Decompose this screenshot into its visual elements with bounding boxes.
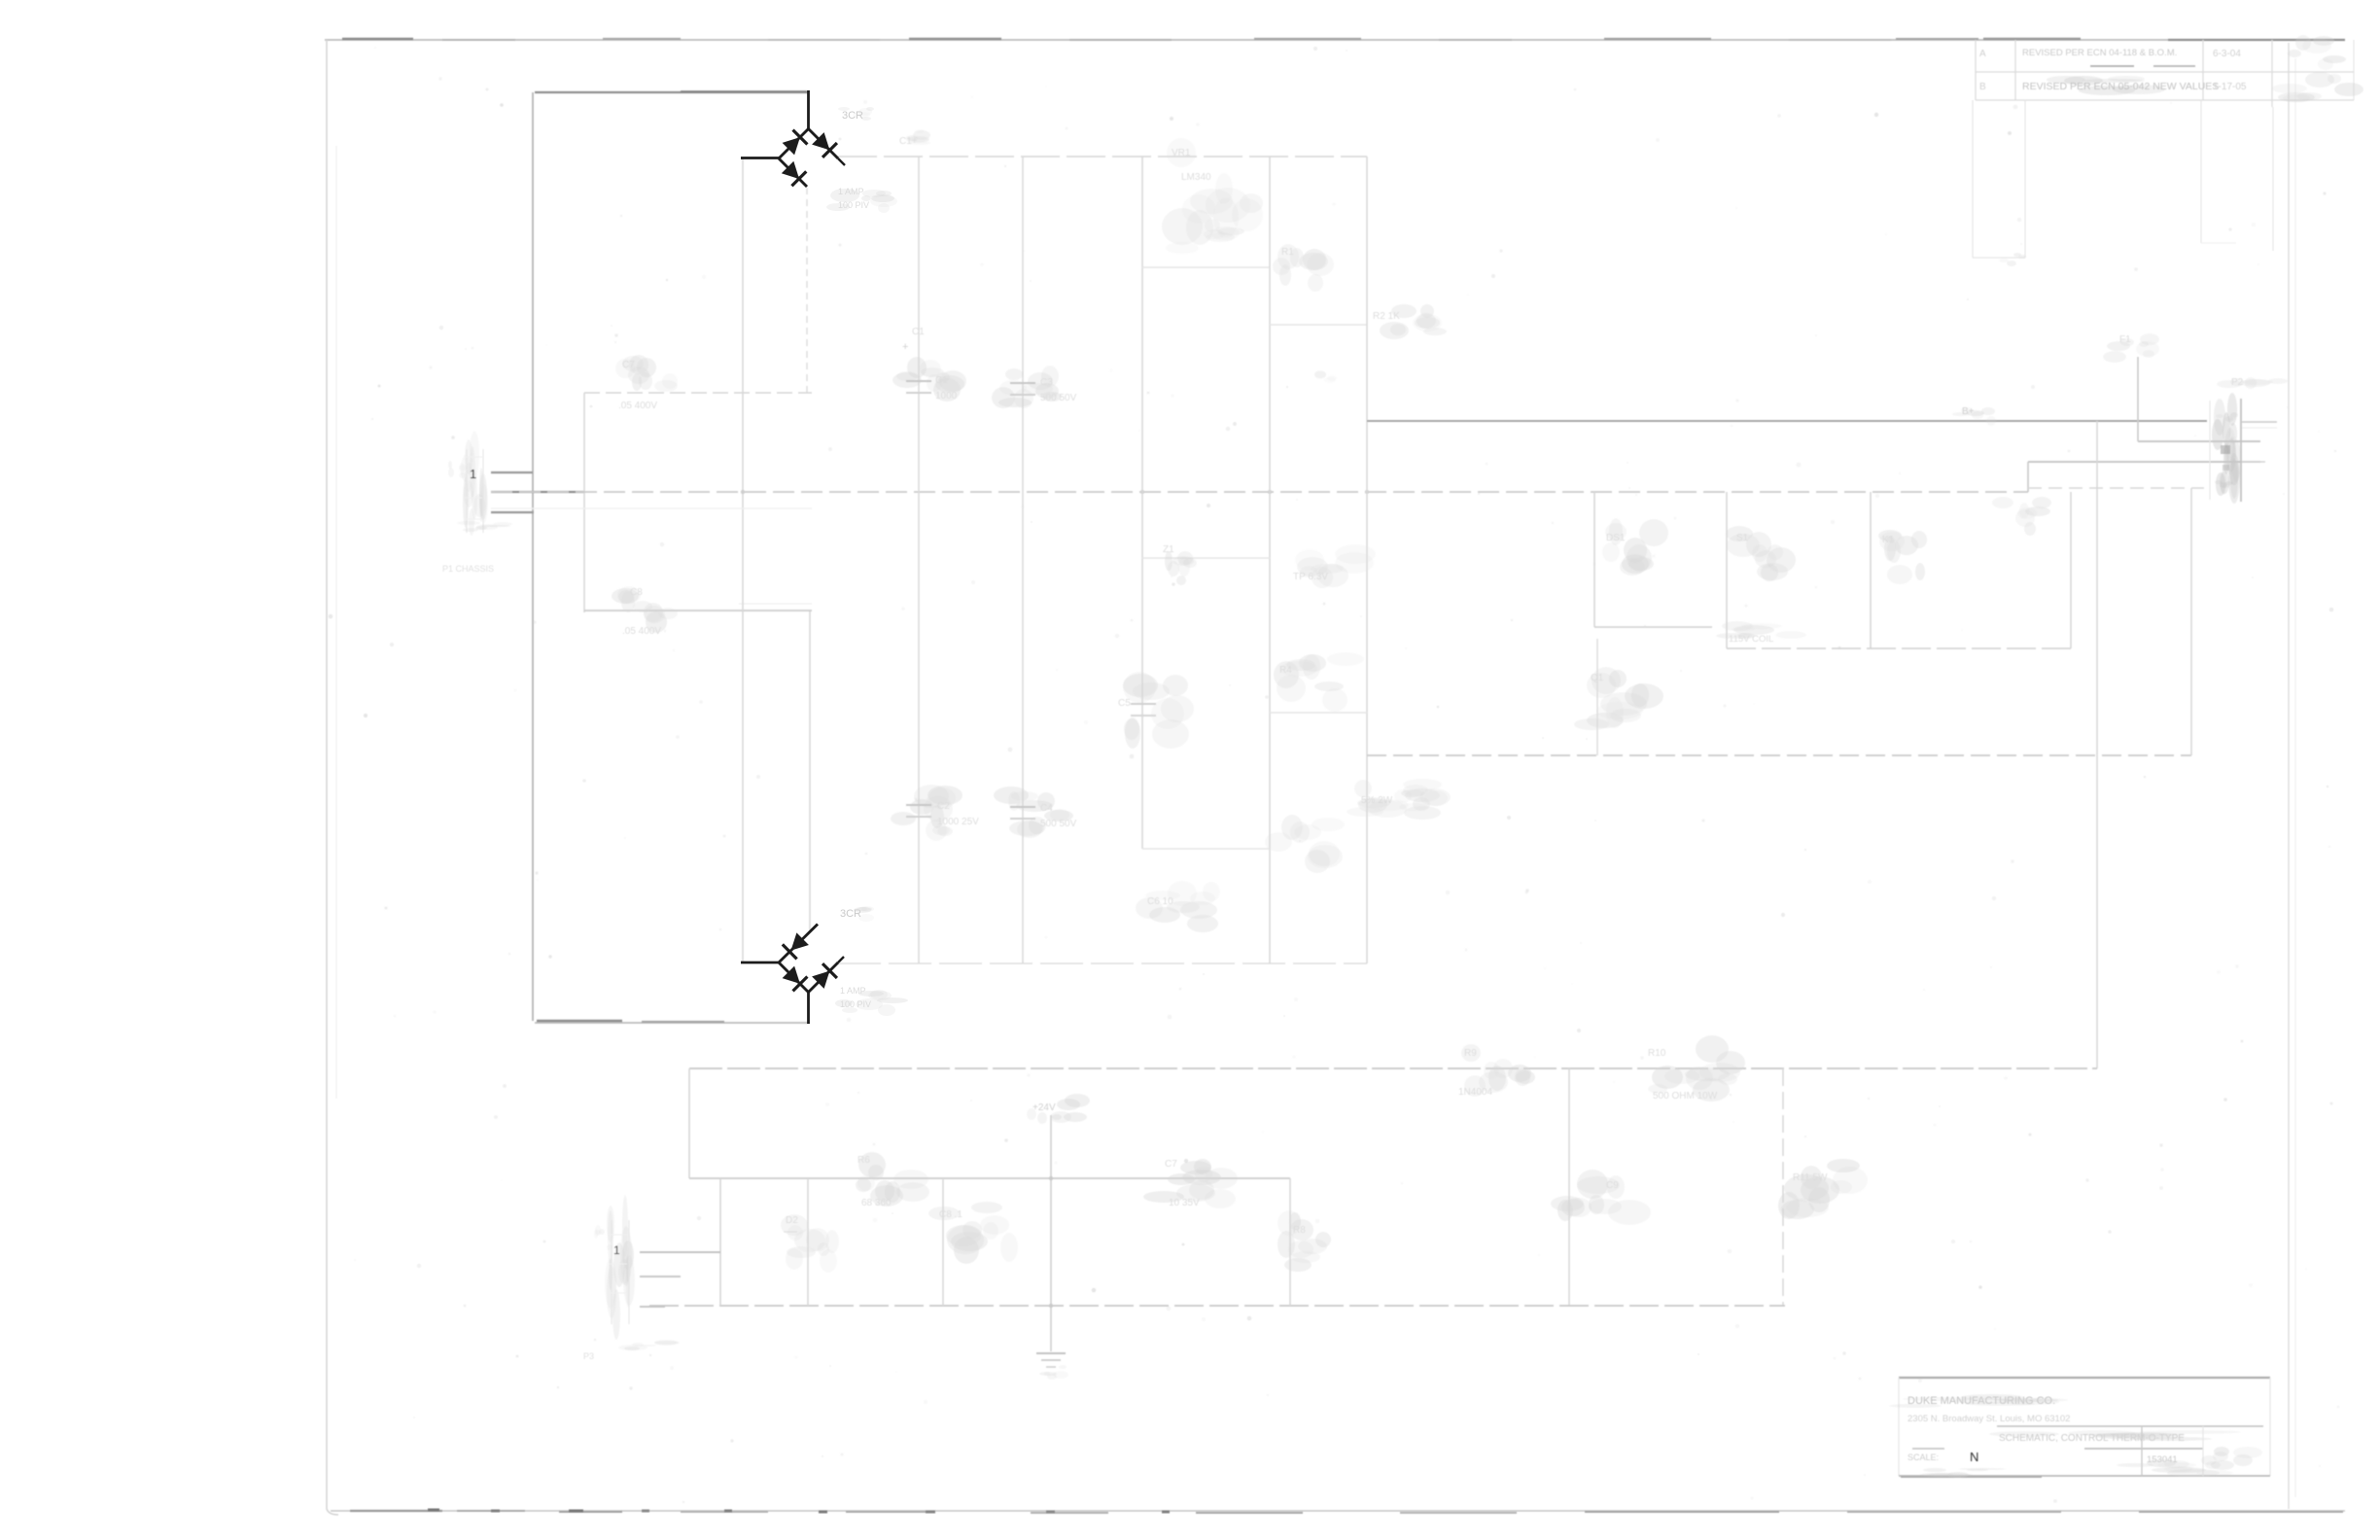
svg-text:R2 1K: R2 1K [1373,311,1400,322]
bridge rectifier CR1 left lead [741,157,779,159]
revision table box [1976,40,2354,107]
svg-text:D2: D2 [786,1215,798,1226]
connector J2 label [2217,377,2288,389]
svg-text:68 360: 68 360 [861,1198,892,1208]
svg-text:500 50V: 500 50V [1040,819,1077,829]
capacitor C6 body [994,787,1077,838]
component on x1306 low [1265,815,1345,873]
wire y475 [2028,461,2260,463]
regulator U1 body [1162,138,1263,254]
capacitor C3 body [892,357,966,402]
svg-text:.05 400V: .05 400V [618,401,657,411]
connector J2 pin marks [2215,412,2238,488]
bridge rectifier CR2 bottom lead [807,992,810,1024]
component on x1327 [1277,1210,1331,1272]
svg-text:C9: C9 [1606,1180,1619,1191]
inductor L1 on y1212 [1143,1159,1238,1208]
junction at (1306,506) [1268,490,1272,494]
junction at (764,506) [741,490,745,494]
svg-text:115V COIL: 115V COIL [1729,634,1773,645]
connector J2 right stubs [2242,422,2277,462]
revision table hanging rule 2 [2201,100,2273,251]
svg-text:C7: C7 [1165,1159,1177,1170]
capacitor C1 on y404 [615,355,678,411]
svg-text:2305 N. Broadway St. Louis, M: 2305 N. Broadway St. Louis, MO 63102 [1907,1414,2070,1424]
bridge rectifier CR2 diode D2 (lower-left) [779,962,809,993]
junction at (1081,1343) [1049,1304,1053,1308]
net VUNREG middle bus [491,492,2028,508]
resistor R10 on y1099 [1648,1035,1745,1102]
svg-text:R8: R8 [1293,1225,1306,1236]
component below y873 [1136,881,1220,932]
revision table row 2 text [1979,72,2363,102]
connector J3 body [594,1195,635,1340]
ground symbol at x1081 [1036,1353,1068,1380]
svg-text:R10: R10 [1648,1048,1666,1059]
svg-text:C1+: C1+ [899,136,918,147]
component near x2086 under bus [1992,497,2051,536]
net bus y1099 [689,1067,2097,1069]
title block vertical divider [2142,1426,2203,1476]
svg-text:1: 1 [470,467,476,481]
svg-text:C8 .1: C8 .1 [939,1209,962,1220]
connector J1 pin2 wire [491,491,584,493]
junction at (1406,506) [1365,490,1369,494]
svg-text:TP 6.3V: TP 6.3V [1293,572,1328,582]
resistor R2 label [1373,304,1447,339]
transistor Q1 body [1574,667,1663,730]
label under bus y777 [1354,779,1451,818]
wire regulator column x1175 [1141,157,1143,849]
svg-text:10 35V: 10 35V [1169,1198,1200,1208]
title block title text [1989,1430,2241,1444]
wire vertical x2254 [2190,488,2192,755]
wire vertical x2086 [2027,462,2029,492]
wire filter column x945 [918,157,920,963]
svg-text:C3: C3 [1040,377,1053,388]
wire vertical x709 [688,1068,690,1178]
svg-text:1N4004: 1N4004 [1458,1087,1492,1098]
wire tick y275 [1142,266,1270,268]
wire y667 [1727,647,2071,649]
wire vertical x741 [719,1178,721,1306]
title block outer box [1899,1378,2270,1477]
power rail VCC vertical x1081 [1050,1115,1052,1351]
net bus y1212 [689,1177,1290,1179]
diode D6 on x831 [781,1214,839,1273]
capacitor C3 value label [902,327,925,353]
bridge rectifier CR1 diode D1 (upper-left) [779,129,809,159]
wire left vertical bus [532,92,534,1021]
wire bottom return horizontal [535,1021,809,1023]
svg-text:1-17-05: 1-17-05 [2213,82,2247,92]
svg-text:.05 400V: .05 400V [622,626,661,637]
svg-text:A: A [1979,49,1986,59]
capacitor C2 on y628 [612,586,678,637]
svg-text:R9: R9 [1464,1048,1477,1059]
svg-text:R11 5W: R11 5W [1793,1172,1828,1183]
connector J3 pin3 wire [640,1306,665,1308]
svg-text:B: B [1979,82,1986,92]
svg-text:C1: C1 [935,375,948,386]
net DC- bus y991 [838,962,1367,964]
wire y454 [2138,440,2260,442]
title block bottom note [1920,1468,2006,1478]
net DC+ top bus y161 [838,156,1367,157]
resistor R1 on x1306 [1273,244,1334,292]
svg-text:P3: P3 [583,1351,594,1361]
net B+ bus y433 [1367,420,2207,422]
bridge rectifier CR2 label [840,906,874,922]
svg-text:P1 CHASSIS: P1 CHASSIS [442,564,494,574]
bridge rectifier CR2 diode D1 (upper-left) [779,925,818,963]
switch S1 vertical x1776 [1726,492,1728,648]
svg-text:F1: F1 [2119,334,2131,345]
component on x1306 mid [1274,652,1364,712]
label on bus y433 [1952,406,1996,426]
zener VR2 on y574 [1163,544,1197,585]
wire filter column x1052 [1022,157,1024,963]
svg-text:R4: R4 [1279,665,1292,676]
svg-text:C4: C4 [1040,803,1053,814]
title block scale label [1907,1452,1939,1462]
diode D5 on y1099 [1458,1044,1535,1098]
svg-text:K1: K1 [1882,535,1895,545]
wire ac bus y404 [584,392,812,394]
label under box [1716,621,1806,645]
wire tick y873 [1142,848,1270,850]
title block rule 1 [1997,1425,2263,1427]
svg-text:+: + [902,341,908,353]
resistor R6 on y1212 [856,1152,929,1208]
svg-text:Z1: Z1 [1163,544,1174,555]
wire top feed horizontal [535,91,808,92]
connector J3 pin1 wire [640,1251,720,1253]
net bus y777 [1367,754,2191,756]
title block N mark [1970,1450,1978,1464]
wire regulator column x1306 [1269,157,1271,963]
svg-text:1: 1 [613,1243,620,1257]
wire vertical x1614 [1568,1068,1570,1306]
bridge rectifier CR1 value label [826,187,897,213]
svg-text:C5: C5 [1118,698,1131,709]
wire vertical x2157 long [2096,421,2098,1068]
svg-text:VR1: VR1 [1172,148,1191,158]
svg-text:B+: B+ [1962,406,1975,417]
wire transformer secondary vertical [742,158,744,962]
title block drawing number [2117,1447,2262,1477]
relay K1 body [1878,530,1927,584]
bridge rectifier CR2 left lead [741,962,779,964]
label above x2199 [2103,333,2159,363]
svg-text:6-3-04: 6-3-04 [2213,49,2241,59]
svg-text:C2: C2 [937,801,950,812]
capacitor C10 on x1614 [1551,1170,1651,1225]
wire Q1 emitter [1596,639,1598,755]
bridge rectifier CR1 diode D3 (lower-left) [779,158,807,187]
switch S1 body [1726,526,1796,581]
capacitor C4 body [891,785,979,841]
svg-text:REVISED PER ECN 04-118 & B.O.M: REVISED PER ECN 04-118 & B.O.M. [2022,48,2177,58]
svg-text:N: N [1970,1450,1978,1464]
bridge rectifier CR2 value label [835,986,908,1016]
label C3 top [899,129,930,147]
svg-text:1000 25V: 1000 25V [937,817,979,827]
connector J3 pin 1 label [613,1243,620,1257]
wire ac bus y628 [584,604,812,611]
wire vertical x601 [583,393,585,612]
connector J3 pin2 wire [640,1276,681,1277]
lamp DS1 vertical x1640 [1593,492,1595,627]
junction at (1175,506) [1140,490,1144,494]
svg-text:C1: C1 [912,327,925,337]
svg-text:500 OHM 10W: 500 OHM 10W [1653,1091,1718,1102]
bridge rectifier CR1 label [838,107,874,122]
net bus y502 extension [2028,487,2204,489]
capacitor C5 body [992,366,1077,408]
svg-text:+24V: +24V [1032,1102,1056,1113]
revision table hanging rule 3 [1314,370,1337,383]
wire vertical x2199 upper [2137,357,2139,441]
revision table row 1 text [1979,35,2346,70]
connector J1 pin 1 label [470,467,476,481]
svg-text:1000: 1000 [935,391,958,402]
wire y645 [1594,626,1712,628]
bridge rectifier CR1 top lead [807,90,810,129]
connector J1 body [448,431,488,536]
relay K1 vertical x1924 [1870,492,1872,648]
junction at (1081,1212) [1049,1176,1053,1180]
svg-text:500 50V: 500 50V [1040,393,1077,403]
wire tick y574 [1142,557,1270,559]
svg-text:R6: R6 [857,1155,870,1166]
wire CR1 dc minus vertical [806,188,808,393]
connector J1 reference label [442,521,512,574]
net bus y1343 [649,1305,1785,1307]
power flag +V label [1027,1094,1090,1124]
wire tick y733 [1270,712,1367,714]
lamp DS1 body [1602,518,1668,576]
wire vertical x970 [942,1178,944,1306]
svg-text:S1: S1 [1736,533,1749,543]
title block company line [1889,1394,2068,1408]
svg-text:C6 10: C6 10 [1147,896,1173,907]
resistor R11 on x1834 [1778,1159,1868,1219]
svg-text:LM340: LM340 [1181,172,1211,183]
wire vertical x1834 [1782,1068,1784,1306]
bridge rectifier CR2 diode D3 (lower-right) [809,957,845,993]
svg-text:SCALE:: SCALE: [1907,1452,1939,1462]
wire column x1406 [1366,157,1368,963]
wire tick y334 [1270,324,1367,326]
connector J1 pin1 wire [491,472,533,473]
wire vertical x2130 [2070,492,2072,648]
connector J2 body [2210,393,2241,504]
wire vertical x1327 [1289,1178,1291,1306]
connector J1 pin3 wire [491,511,534,513]
resistor R5 label x1406 [1347,785,1441,820]
capacitor C11 on x970 [928,1202,1018,1264]
wire CR2 ac feed vertical [809,611,811,930]
test point label TP1 [1293,544,1376,588]
title block rule 2 [1912,1448,2203,1450]
capacitor C9 on x1175 [1118,672,1194,749]
svg-text:R1: R1 [1281,247,1294,258]
title block address line [1907,1414,2070,1424]
svg-text:P2: P2 [2231,377,2244,388]
svg-text:C7: C7 [622,360,635,370]
bridge rectifier CR1 diode D2 (upper-right) [809,129,846,166]
revision table hanging rule 1 [1973,100,2026,266]
svg-text:DS1: DS1 [1606,533,1626,543]
wire vertical x831b [784,1178,808,1306]
connector J3 reference label [583,1340,680,1361]
svg-text:C8: C8 [630,587,643,598]
